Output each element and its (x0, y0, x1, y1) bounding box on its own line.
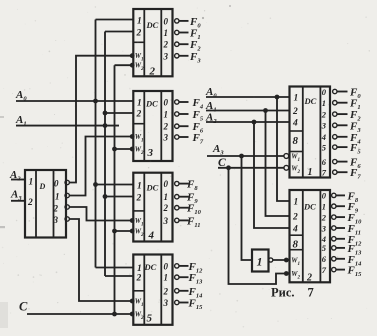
output F11 (U2 out 3) (332, 226, 336, 230)
svg-text:DC: DC (303, 202, 316, 212)
svg-text:7: 7 (322, 168, 327, 178)
wire A0 horizontal (right) (206, 96, 290, 98)
output F1 (U1 out 1) (333, 101, 337, 105)
wire C to DD3 pin W2 (115, 148, 132, 150)
svg-text:0: 0 (164, 261, 169, 271)
output F14 (U2 out 6) (332, 257, 336, 261)
wire A0 to DD5 pin 1 (96, 267, 134, 269)
DD2 W input dots (130, 53, 135, 58)
svg-text:2: 2 (27, 198, 33, 208)
DD5 W input dots (130, 299, 135, 304)
svg-text:6: 6 (322, 254, 327, 264)
wire A3 stub (11, 200, 25, 202)
svg-text:2: 2 (149, 66, 156, 78)
output F4 (DD3 out 0) (175, 100, 179, 104)
svg-text:1: 1 (164, 110, 169, 120)
svg-text:C: C (19, 300, 28, 314)
wire A3 horizontal (right) (207, 155, 285, 157)
wire C to DD2 pin W2 (115, 64, 132, 66)
output F0 (DD2 out 0) (175, 19, 179, 23)
svg-text:0: 0 (164, 179, 169, 189)
svg-text:3: 3 (163, 298, 169, 308)
output F1 (DD2 out 1) (175, 30, 179, 34)
wire C horizontal (right) (218, 167, 285, 169)
svg-text:3: 3 (163, 216, 169, 226)
output F13 (DD5 out 1) (175, 275, 179, 279)
svg-text:1: 1 (322, 202, 326, 212)
wire DD1 out1 to DD3 W1 (69, 137, 131, 196)
svg-text:1: 1 (29, 178, 34, 188)
output F3 (U1 out 3) (333, 123, 337, 127)
svg-text:0: 0 (54, 179, 59, 189)
DD3 W input dots (130, 134, 135, 139)
output F6 (DD3 out 2) (175, 124, 179, 128)
output F7 (DD3 out 3) (175, 135, 179, 139)
svg-text:Рис.: Рис. (271, 286, 295, 300)
output F9 (U2 out 1) (332, 204, 336, 208)
wire G1 output to U2 W1 (273, 259, 290, 261)
svg-text:2: 2 (163, 40, 169, 50)
svg-text:5: 5 (322, 243, 327, 253)
output F15 (DD5 out 3) (175, 300, 179, 304)
decoder DD3 (left second 2-to-4) (133, 91, 172, 161)
svg-text:4: 4 (148, 230, 155, 242)
U1 W2 input bubble (284, 165, 289, 170)
svg-text:0: 0 (164, 16, 169, 26)
wire A1 horizontal (right) (206, 110, 290, 112)
svg-text:3: 3 (321, 121, 327, 131)
junction A0 (right) (275, 95, 280, 100)
output F14 (DD5 out 2) (175, 289, 179, 293)
output F6 (U1 out 6) (333, 159, 337, 163)
output F7 (U1 out 7) (333, 170, 337, 174)
wire A1 to DD5 pin 2 (105, 275, 133, 277)
junction A1 at DD4 branch (103, 194, 108, 199)
svg-text:1: 1 (294, 94, 299, 104)
wire C vertical riser (114, 65, 116, 314)
svg-text:2: 2 (136, 194, 142, 204)
output F0 (U1 out 0) (333, 89, 337, 93)
svg-text:3: 3 (163, 51, 169, 61)
svg-text:2: 2 (163, 122, 169, 132)
output F2 (U1 out 2) (333, 112, 337, 116)
junction C riser at DD3 (112, 147, 117, 152)
wire A0 vertical bus (95, 20, 97, 268)
decoder DD4 (left third 2-to-4) (133, 173, 172, 242)
svg-text:DC: DC (146, 20, 159, 30)
svg-text:1: 1 (137, 99, 142, 109)
svg-text:8: 8 (293, 239, 299, 251)
svg-text:1: 1 (322, 98, 326, 108)
decoder U2 (right bottom 3-to-8) (290, 190, 331, 284)
svg-text:2: 2 (163, 286, 169, 296)
junction C riser at DD4 (112, 229, 117, 234)
output F10 (U2 out 2) (332, 215, 336, 219)
DD1 output 2 bubble (65, 205, 69, 209)
svg-text:2: 2 (292, 213, 298, 223)
svg-text:2: 2 (136, 29, 142, 39)
decoder DD5 (left bottom 2-to-4) (133, 255, 172, 325)
junction C (right) (226, 165, 231, 170)
svg-text:3: 3 (147, 147, 154, 159)
wire A1 horizontal (16, 125, 119, 127)
wire A1 to DD3 pin 2 (105, 112, 133, 114)
wire DD1 out0 to DD2 W1 (69, 56, 131, 183)
output F8 (U2 out 0) (332, 193, 336, 197)
wire A3 drop to inverter (242, 156, 253, 260)
wire A1 vertical bus (104, 32, 106, 277)
output F3 (DD2 out 3) (175, 54, 179, 58)
U1 W1 input bubble (284, 154, 289, 159)
U2 W2 input dot (284, 271, 289, 276)
output F12 (U2 out 4) (332, 237, 336, 241)
DD4 W input dots (130, 218, 135, 223)
svg-text:2: 2 (53, 204, 59, 214)
output F8 (DD4 out 0) (175, 181, 179, 185)
svg-text:3: 3 (163, 133, 169, 143)
wire A1 to DD2 pin 2 (105, 31, 133, 33)
wire DD1 out2 to DD4 W1 (69, 207, 131, 221)
svg-text:0: 0 (322, 87, 327, 97)
svg-text:0: 0 (164, 98, 169, 108)
svg-text:7: 7 (322, 265, 327, 275)
decoder U1 (right top 3-to-8) (290, 87, 331, 179)
svg-text:DC: DC (144, 262, 157, 272)
svg-text:1: 1 (164, 28, 169, 38)
junction A1 at DD3 branch (103, 111, 108, 116)
wire A0 to DD2 pin 1 (96, 19, 134, 21)
wire A2 stub (11, 179, 25, 181)
svg-text:6: 6 (322, 157, 327, 167)
svg-text:1: 1 (55, 192, 60, 202)
svg-text:2: 2 (136, 110, 142, 120)
output F5 (U1 out 5) (333, 145, 337, 149)
svg-text:2: 2 (136, 274, 142, 284)
wire C to DD4 pin W2 (115, 230, 132, 232)
DD1 output 1 bubble (65, 193, 69, 197)
svg-text:1: 1 (137, 17, 142, 27)
svg-text:5: 5 (147, 313, 153, 325)
wire C horizontal (27, 313, 132, 315)
decoder DD1 (2-to-4, inputs A2 A3) (25, 170, 66, 238)
svg-text:1: 1 (257, 255, 263, 269)
svg-text:3: 3 (321, 223, 327, 233)
svg-text:2: 2 (306, 273, 312, 284)
decoder DD2 (left top 2-to-4) (133, 9, 172, 78)
svg-text:DC: DC (145, 99, 158, 109)
junction A1 at A1 line (103, 123, 108, 128)
svg-text:4: 4 (292, 225, 298, 235)
output F10 (DD4 out 2) (175, 206, 179, 210)
junction A3 (right) (239, 154, 244, 159)
svg-text:4: 4 (292, 119, 298, 129)
wire A0 to DD4 pin 1 (96, 184, 134, 186)
output F5 (DD3 out 1) (175, 112, 179, 116)
wire A2 drop to U2 pin 4 (254, 122, 290, 228)
svg-text:7: 7 (308, 286, 314, 300)
output F15 (U2 out 7) (332, 267, 336, 271)
svg-text:2: 2 (163, 203, 169, 213)
wire A1 to DD4 pin 2 (105, 196, 133, 198)
svg-text:0: 0 (322, 191, 327, 201)
wire C drop to U2 W2 (229, 168, 290, 284)
svg-text:4: 4 (321, 132, 326, 142)
svg-text:DC: DC (146, 183, 159, 193)
svg-text:2: 2 (292, 107, 298, 117)
output F4 (U1 out 4) (333, 135, 337, 139)
junction A0 at DD4 branch (93, 182, 98, 187)
svg-text:D: D (39, 182, 46, 191)
output F11 (DD4 out 3) (175, 218, 179, 222)
wire A0 drop to U2 pin 1 (277, 97, 290, 201)
output F13 (U2 out 5) (332, 246, 336, 250)
svg-text:1: 1 (164, 192, 169, 202)
wire A2 horizontal (right) (206, 121, 290, 123)
svg-text:3: 3 (53, 215, 59, 225)
wire A0 horizontal (16, 100, 133, 102)
svg-text:1: 1 (164, 273, 169, 283)
wire DD1 out3 to DD5 W1 (69, 219, 131, 301)
svg-text:2: 2 (321, 109, 327, 119)
DD1 output 0 bubble (65, 180, 69, 184)
svg-text:2: 2 (321, 212, 327, 222)
wire A1 drop to U2 pin 2 (266, 111, 290, 217)
junction A0 at A0 line (93, 99, 98, 104)
output F2 (DD2 out 2) (175, 42, 179, 46)
U2 W1 input dot (284, 258, 289, 263)
junction A2 (right) (252, 120, 257, 125)
svg-text:5: 5 (322, 142, 327, 152)
svg-text:8: 8 (293, 135, 299, 147)
output F12 (DD5 out 0) (175, 264, 179, 268)
svg-text:1: 1 (137, 264, 142, 274)
output F9 (DD4 out 1) (175, 195, 179, 199)
junction C riser at C line (112, 312, 117, 317)
DD1 output 3 bubble (65, 217, 69, 221)
junction A1 (right) (263, 108, 268, 113)
inverter G1 (252, 250, 269, 272)
svg-text:1: 1 (294, 198, 299, 208)
svg-text:DC: DC (304, 96, 317, 106)
G1 output bubble (269, 258, 273, 262)
